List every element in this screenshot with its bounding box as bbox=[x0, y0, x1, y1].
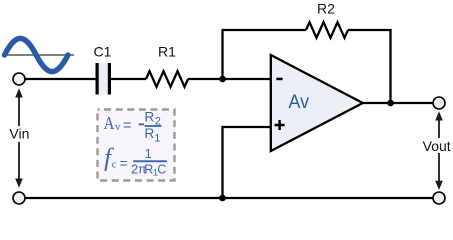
svg-text:=: = bbox=[120, 155, 128, 171]
capacitor C1 bbox=[96, 63, 112, 95]
wire feedback top horizontal bbox=[222, 29, 307, 31]
resistor R2 bbox=[306, 22, 348, 38]
wire bottom rail bbox=[24, 197, 434, 199]
svg-text:v: v bbox=[115, 121, 121, 133]
svg-text:R: R bbox=[145, 126, 155, 141]
svg-text:R1: R1 bbox=[158, 44, 176, 60]
wire Vin to C1 bbox=[24, 78, 96, 80]
svg-text:R: R bbox=[145, 109, 155, 124]
wire non-inverting input bbox=[223, 127, 271, 198]
node feedback junction bbox=[219, 76, 226, 83]
svg-text:R2: R2 bbox=[317, 1, 335, 17]
op-amp plus sign bbox=[275, 120, 285, 130]
svg-text:=: = bbox=[123, 118, 132, 134]
Vout measurement arrow bbox=[435, 111, 443, 190]
svg-text:Vout: Vout bbox=[423, 138, 451, 154]
svg-text:C: C bbox=[157, 163, 166, 177]
formula fc = 1/(2piR1C) bbox=[104, 144, 167, 178]
wire R2 to output corner bbox=[348, 30, 391, 103]
formula Av = -R2/R1 bbox=[104, 109, 162, 144]
wire feedback tap vertical bbox=[221, 30, 223, 79]
svg-text:c: c bbox=[112, 160, 117, 171]
terminal Vin top bbox=[13, 73, 25, 85]
terminal Vout bottom bbox=[433, 192, 445, 204]
formula box bbox=[98, 110, 175, 181]
wire op-amp output bbox=[362, 102, 434, 104]
node output junction bbox=[387, 100, 394, 107]
svg-text:Vin: Vin bbox=[9, 126, 29, 142]
svg-text:Av: Av bbox=[289, 92, 310, 113]
AC source sine wave bbox=[5, 38, 69, 71]
terminal Vin bottom bbox=[13, 192, 25, 204]
op-amp U1 bbox=[271, 55, 363, 151]
wire C1 to R1 bbox=[111, 78, 146, 80]
Vin measurement arrow bbox=[15, 88, 23, 188]
wire R1 to op-amp inverting input bbox=[188, 78, 271, 80]
AC source sine axis bbox=[2, 54, 74, 56]
terminal Vout top bbox=[433, 97, 445, 109]
resistor R1 bbox=[146, 71, 188, 87]
svg-text:1: 1 bbox=[154, 133, 160, 145]
svg-text:A: A bbox=[104, 113, 115, 133]
svg-text:1: 1 bbox=[145, 146, 152, 161]
node bottom junction bbox=[219, 195, 226, 202]
svg-text:C1: C1 bbox=[94, 44, 112, 60]
op-amp minus sign bbox=[276, 78, 282, 81]
